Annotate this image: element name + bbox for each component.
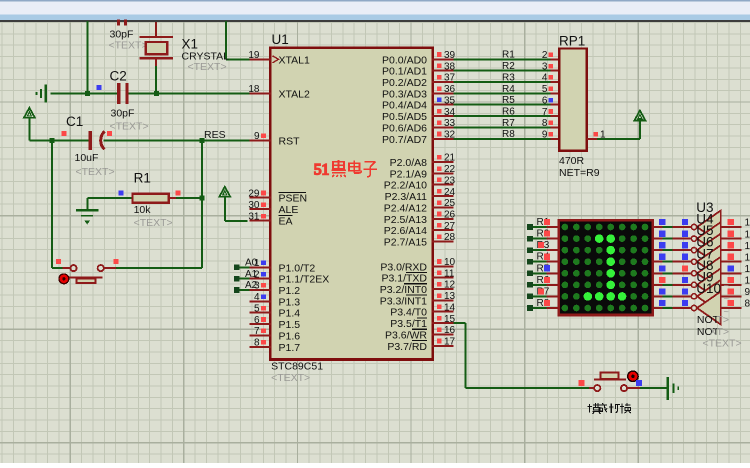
state square matrix R5 <box>544 265 550 271</box>
svg-text:16: 16 <box>444 325 456 336</box>
wire RES row <box>29 139 251 141</box>
svg-text:6: 6 <box>254 315 260 326</box>
wire matrix row 6 to U8 <box>653 282 697 287</box>
wire matrix row 5 to U7 <box>653 271 697 276</box>
pin 32 (P0.7/AD7) right <box>382 130 456 146</box>
wire net R4 <box>454 84 559 95</box>
pin 17 (P3.7/RD) right <box>387 337 455 353</box>
pin 30 (ALE) left <box>248 200 298 216</box>
pin 25 (P2.4/A12) right <box>384 198 456 214</box>
svg-text:A1: A1 <box>245 269 258 280</box>
label U10 TEXT fragment <box>710 326 730 338</box>
label RP1 NET=R9 <box>559 167 600 179</box>
label C1 10uF <box>75 152 99 164</box>
svg-text:P3.1/TXD: P3.1/TXD <box>381 273 427 285</box>
svg-text:24: 24 <box>444 187 456 198</box>
svg-text:4: 4 <box>542 73 548 84</box>
svg-text:28: 28 <box>444 232 456 243</box>
wire matrix row 4 to U6 <box>653 259 697 264</box>
state squares row 5 <box>659 265 688 271</box>
svg-text:<TEXT>: <TEXT> <box>110 121 149 133</box>
label U3 <box>696 200 713 215</box>
RP1 pin 3 <box>542 61 553 72</box>
svg-text:10uF: 10uF <box>75 152 99 164</box>
svg-text:30: 30 <box>248 200 260 211</box>
svg-text:P3.0/RXD: P3.0/RXD <box>380 261 427 273</box>
wire XTAL1 node vertical <box>226 21 252 59</box>
label X1 TEXT <box>188 61 227 73</box>
svg-text:27: 27 <box>444 221 456 232</box>
matrix row wire R8 (left) <box>527 298 558 311</box>
wire XTAL2 node horizontal <box>51 92 252 94</box>
svg-text:P3.6/WR: P3.6/WR <box>385 330 427 342</box>
matrix row wire R6 (left) <box>527 275 558 288</box>
svg-text:11: 11 <box>444 268 455 279</box>
svg-text:P2.4/A12: P2.4/A12 <box>384 202 427 214</box>
svg-text:9: 9 <box>542 130 548 141</box>
wire RES node down to button right / R1 <box>201 140 203 268</box>
state squares C1 <box>62 131 112 136</box>
label RP1 <box>559 34 585 49</box>
svg-text:P2.5/A13: P2.5/A13 <box>384 214 427 226</box>
label C2 30pF <box>111 108 135 120</box>
pin 11 (P3.1/TXD) right <box>381 268 454 284</box>
inverter U9 <box>697 280 721 313</box>
pin 38 (P0.1/AD1) right <box>382 61 456 77</box>
state squares row 6 <box>659 277 688 283</box>
RP1 pin 6 <box>542 95 553 106</box>
pin 5 (P1.4) left <box>250 303 301 319</box>
svg-text:R1: R1 <box>134 171 151 186</box>
power arrow (RP1 pin1) <box>634 111 645 125</box>
svg-text:2: 2 <box>542 50 548 61</box>
svg-text:<TEXT>: <TEXT> <box>109 40 148 52</box>
ground (below R1) <box>76 210 98 224</box>
ground (near C2) <box>37 84 46 102</box>
svg-text:13: 13 <box>745 241 750 252</box>
inverter U3 <box>697 211 721 244</box>
svg-text:R8: R8 <box>502 129 515 140</box>
RP1 pin 4 <box>542 73 553 84</box>
label U9 TEXT fragment <box>717 314 730 326</box>
svg-text:31: 31 <box>248 211 260 222</box>
svg-text:RES: RES <box>204 129 226 141</box>
svg-text:13: 13 <box>444 291 456 302</box>
svg-text:P0.0/AD0: P0.0/AD0 <box>382 54 427 66</box>
state square matrix R4 <box>544 254 550 260</box>
inverter U6 <box>697 245 721 278</box>
grey TEXT fragments right column <box>724 281 729 317</box>
inverter U7 output wire <box>721 264 750 275</box>
label U4 <box>696 212 714 227</box>
power arrow (EA) <box>219 187 230 221</box>
svg-text:C1: C1 <box>66 114 83 129</box>
svg-text:P1.4: P1.4 <box>279 308 301 320</box>
wire matrix row 3 to U5 <box>653 248 697 253</box>
pin 15 (P3.5/T1) right <box>390 314 455 330</box>
pin 27 (P2.6/A14) right <box>384 221 456 237</box>
label STC89C51 <box>271 361 323 373</box>
mode button actuator icon <box>628 371 638 381</box>
svg-text:PSEN: PSEN <box>279 193 308 205</box>
state squares row 3 <box>659 242 688 248</box>
inverter U10 <box>697 292 721 325</box>
pin 37 (P0.2/AD2) right <box>382 73 456 89</box>
pin 35 (P0.4/AD4) right <box>382 95 456 111</box>
svg-text:21: 21 <box>444 153 456 164</box>
resistor pack RP1 <box>559 49 587 151</box>
push button (reset) <box>63 265 117 283</box>
svg-text:RP1: RP1 <box>559 34 585 49</box>
svg-text:5: 5 <box>542 84 548 95</box>
label moshiqiehuan (mode switch CJK) <box>588 403 632 414</box>
svg-text:30pF: 30pF <box>111 108 135 120</box>
capacitor C1 (10uF electrolytic) <box>88 131 104 150</box>
svg-text:12: 12 <box>444 280 456 291</box>
inverter U6 output wire <box>721 252 750 263</box>
svg-text:X1: X1 <box>182 37 199 52</box>
junction crystal/XTAL2 <box>154 91 159 96</box>
wire button-left vertical <box>52 140 63 268</box>
state square matrix R8 <box>544 300 550 306</box>
svg-text:STC89C51: STC89C51 <box>271 361 323 373</box>
svg-text:R2: R2 <box>502 61 515 72</box>
pin 31 (EA) left <box>248 211 292 227</box>
svg-text:EA: EA <box>279 216 293 228</box>
svg-text:8: 8 <box>745 299 750 310</box>
pin 6 (P1.5) left <box>250 315 301 331</box>
svg-text:P2.7/A15: P2.7/A15 <box>384 237 427 249</box>
inverter U8 <box>697 268 721 301</box>
svg-text:P2.1/A9: P2.1/A9 <box>390 168 428 180</box>
RP1 pin 9 <box>542 130 553 141</box>
pin 26 (P2.5/A13) right <box>384 210 456 226</box>
wire net R6 <box>454 107 559 118</box>
power arrow (RES node) <box>24 108 35 141</box>
svg-text:51: 51 <box>314 162 330 179</box>
net label A2 wire <box>234 280 258 293</box>
pin 34 (P0.5/AD5) right <box>382 107 456 123</box>
pin 18 (XTAL2) left <box>248 84 310 100</box>
label U8 <box>696 258 713 273</box>
junction RES/R1 <box>200 138 205 143</box>
svg-text:P1.7: P1.7 <box>279 342 301 354</box>
svg-text:~: ~ <box>724 307 729 317</box>
svg-text:18: 18 <box>248 84 260 95</box>
label RP1 470R <box>559 155 585 167</box>
svg-text:7: 7 <box>254 326 260 337</box>
wire net R1 <box>454 50 559 61</box>
svg-text:XTAL2: XTAL2 <box>279 88 310 100</box>
svg-text:P0.6/AD6: P0.6/AD6 <box>382 123 427 135</box>
inverter U4 <box>697 222 721 255</box>
state square matrix R2 <box>544 231 550 237</box>
svg-text:4: 4 <box>254 292 260 303</box>
state square matrix R1 <box>544 219 550 225</box>
svg-text:XT>: XT> <box>710 326 730 338</box>
resistor R1 <box>133 194 203 203</box>
pin 10 (P3.0/RXD) right <box>380 257 455 273</box>
inverter U7 <box>697 257 721 290</box>
wire button right to R1 node <box>116 267 202 269</box>
capacitor C3 (30pF, top, partially hidden) <box>109 20 148 52</box>
label U6 <box>696 235 713 250</box>
svg-text:19: 19 <box>248 50 260 61</box>
svg-text:<TEXT>: <TEXT> <box>76 166 115 178</box>
wire net R7 <box>454 118 559 129</box>
junction R1/vertical <box>200 196 205 201</box>
ground (mode switch) <box>668 377 679 400</box>
wire mode button to ground <box>640 387 667 389</box>
crystal X1 <box>140 22 174 93</box>
svg-text:26: 26 <box>444 210 456 221</box>
inverter U10 output wire <box>721 299 750 310</box>
state squares row 4 <box>659 254 688 260</box>
label R1 <box>134 171 151 186</box>
svg-text:ALE: ALE <box>279 204 299 216</box>
state squares reset button <box>56 259 118 264</box>
pin 28 (P2.7/A15) right <box>384 232 456 248</box>
RP1 pin 7 <box>542 107 553 118</box>
label C1 TEXT <box>76 166 115 178</box>
svg-text:R7: R7 <box>502 118 515 129</box>
pin 8 (P1.7) left <box>250 338 301 354</box>
junction RES/button-left <box>49 138 54 143</box>
wire matrix row 2 to U4 <box>653 236 697 241</box>
svg-text:P2.3/A11: P2.3/A11 <box>385 191 428 203</box>
state squares row 7 <box>659 288 688 294</box>
svg-text:<TEXT>: <TEXT> <box>703 338 742 350</box>
svg-text:R6: R6 <box>502 107 515 118</box>
state square matrix R7 <box>538 288 544 294</box>
svg-text:P2.6/A14: P2.6/A14 <box>384 225 427 237</box>
label U1 TEXT <box>271 372 310 384</box>
capacitor C2 <box>117 83 129 104</box>
label R1 10k <box>134 204 152 216</box>
svg-text:P2.2/A10: P2.2/A10 <box>384 180 427 192</box>
svg-text:~: ~ <box>724 294 729 304</box>
IC U1 body (STC89C51) <box>270 48 432 360</box>
pin 12 (P3.2/INT0) right <box>380 280 456 296</box>
RP1 pin 8 <box>542 118 553 129</box>
LED matrix DM1 body <box>557 219 654 316</box>
wire R1 left + down to ground <box>87 198 132 209</box>
svg-text:14: 14 <box>745 229 750 240</box>
svg-text:RST: RST <box>279 135 301 147</box>
matrix row wire R5 (left) <box>527 263 558 276</box>
matrix row wire R4 (left) <box>527 252 558 265</box>
svg-text:P0.5/AD5: P0.5/AD5 <box>382 111 427 123</box>
inverter U5 output wire <box>721 241 750 252</box>
svg-text:P1.2: P1.2 <box>279 285 301 297</box>
svg-text:10: 10 <box>745 276 750 287</box>
pin 19 (XTAL1) left <box>248 50 310 66</box>
svg-text:R5: R5 <box>502 95 515 106</box>
svg-text:U10: U10 <box>696 281 721 296</box>
svg-text:R1: R1 <box>502 50 515 61</box>
svg-text:8: 8 <box>542 118 548 129</box>
svg-text:P0.7/AD7: P0.7/AD7 <box>382 134 427 146</box>
label U7 <box>696 246 713 261</box>
pin 2 (P1.1/T2EX) left <box>250 269 330 285</box>
inverter U8 output wire <box>721 276 750 287</box>
wire matrix row 1 to U3 <box>653 224 697 229</box>
label gates TEXT <box>703 338 742 350</box>
svg-text:P3.4/T0: P3.4/T0 <box>390 307 427 319</box>
wire C3 to ground node vertical <box>87 21 89 93</box>
pin 3 (P1.2) left <box>250 281 301 297</box>
svg-text:~: ~ <box>724 281 729 291</box>
wire net R5 <box>454 95 559 106</box>
svg-text:NET=R9: NET=R9 <box>559 167 600 179</box>
svg-text:P1.6: P1.6 <box>279 331 301 343</box>
svg-text:11: 11 <box>745 264 750 275</box>
svg-text:12: 12 <box>745 252 750 263</box>
push button (mode) <box>589 372 640 391</box>
svg-text:25: 25 <box>444 198 456 209</box>
svg-text:P0.2/AD2: P0.2/AD2 <box>382 77 427 89</box>
svg-text:A2: A2 <box>245 280 258 291</box>
svg-text:P1.3: P1.3 <box>279 296 301 308</box>
svg-text:P3.3/INT1: P3.3/INT1 <box>380 295 427 307</box>
wire matrix row 7 to U9 <box>653 294 697 299</box>
pin 14 (P3.4/T0) right <box>390 302 455 318</box>
wire EA <box>225 220 248 222</box>
wire net R8 <box>454 129 559 140</box>
svg-text:9: 9 <box>745 287 750 298</box>
pin 22 (P2.1/A9) right <box>390 164 456 180</box>
state squares mode button <box>579 380 642 386</box>
svg-text:P2.0/A8: P2.0/A8 <box>390 157 428 169</box>
net label A0 wire <box>234 258 258 271</box>
pin 4 (P1.3) left <box>250 292 301 308</box>
LED matrix dots <box>562 224 649 312</box>
wire net R3 <box>454 72 559 83</box>
state square matrix R6 <box>544 277 550 283</box>
svg-text:P3.7/RD: P3.7/RD <box>387 341 427 353</box>
matrix row wire R3 (left) <box>527 240 558 253</box>
label NOT (U9) <box>697 314 720 326</box>
svg-text:P3.5/T1: P3.5/T1 <box>390 318 427 330</box>
svg-text:10: 10 <box>444 257 456 268</box>
label C1 <box>66 114 83 129</box>
svg-text:U1: U1 <box>272 32 289 47</box>
pin 23 (P2.2/A10) right <box>384 175 456 191</box>
pin 16 (P3.6/WR) right <box>385 325 456 341</box>
matrix row wire R2 (left) <box>527 229 558 242</box>
svg-text:17: 17 <box>444 337 456 348</box>
state squares row 8 <box>659 300 688 306</box>
pin 9 (RST) left <box>250 131 301 147</box>
label U10 <box>696 281 721 296</box>
label U1 <box>272 32 289 47</box>
button actuator icon <box>59 274 69 284</box>
label X1 <box>182 37 199 52</box>
svg-text:P3.2/INT0: P3.2/INT0 <box>380 284 427 296</box>
svg-text:A0: A0 <box>245 258 258 269</box>
svg-text:R3: R3 <box>502 72 515 83</box>
inverter U9 output wire <box>721 287 750 298</box>
svg-text:23: 23 <box>444 175 456 186</box>
label NOT (U10) <box>697 326 720 338</box>
wire P3.5 to mode button <box>454 323 589 388</box>
inverter U4 output wire <box>721 229 750 240</box>
pin 29 (PSEN) left <box>248 188 307 204</box>
pin 7 (P1.6) left <box>250 326 301 342</box>
state square matrix R3 <box>538 242 544 248</box>
svg-text:XTAL1: XTAL1 <box>279 54 310 66</box>
matrix row wire R1 (left) <box>527 217 558 230</box>
pin 39 (P0.0/AD0) right <box>382 50 456 66</box>
svg-text:14: 14 <box>444 302 456 313</box>
junction C2/ground node <box>85 91 90 96</box>
svg-text:P1.1/T2EX: P1.1/T2EX <box>279 274 330 286</box>
svg-text:C2: C2 <box>110 69 127 84</box>
svg-text:3: 3 <box>542 61 548 72</box>
RP1 pin 1 + wire to power <box>587 121 640 141</box>
label U5 <box>696 223 713 238</box>
svg-text:P0.4/AD4: P0.4/AD4 <box>382 100 427 112</box>
pin 36 (P0.3/AD3) right <box>382 84 456 100</box>
RP1 pin 2 <box>542 50 553 61</box>
svg-text:470R: 470R <box>559 155 585 167</box>
inverter U5 <box>697 234 721 267</box>
svg-text:7: 7 <box>542 107 548 118</box>
matrix row wire R7 (left) <box>527 286 558 299</box>
svg-text:8: 8 <box>254 338 260 349</box>
svg-text:P1.5: P1.5 <box>279 319 301 331</box>
svg-text:R4: R4 <box>502 84 515 95</box>
pin 1 (P1.0/T2) left <box>250 258 316 274</box>
state squares row 1 <box>659 219 688 225</box>
svg-text:29: 29 <box>248 188 260 199</box>
svg-text:P0.3/AD3: P0.3/AD3 <box>382 88 427 100</box>
pin 24 (P2.3/A11) right <box>385 187 456 203</box>
label CRYSTAL <box>182 50 230 62</box>
svg-text:22: 22 <box>444 164 456 175</box>
svg-text:6: 6 <box>542 95 548 106</box>
pin 13 (P3.3/INT1) right <box>380 291 456 307</box>
svg-text:<TEXT>: <TEXT> <box>271 372 310 384</box>
label R1 TEXT <box>134 217 173 229</box>
svg-text:<TEXT>: <TEXT> <box>134 217 173 229</box>
net label RES <box>204 129 226 141</box>
label U9 <box>696 269 713 284</box>
svg-text:P1.0/T2: P1.0/T2 <box>279 262 316 274</box>
net label A1 wire <box>234 269 258 282</box>
toolbar strip <box>0 0 750 22</box>
pin 33 (P0.6/AD6) right <box>382 118 456 134</box>
pin XTAL1 clock chevron <box>273 56 279 63</box>
svg-text:P0.1/AD1: P0.1/AD1 <box>382 66 427 78</box>
state squares R1 <box>119 190 181 195</box>
inverter U3 output wire <box>721 218 750 229</box>
RP1 pin 5 <box>542 84 553 95</box>
svg-text:<TEXT>: <TEXT> <box>188 61 227 73</box>
svg-text:15: 15 <box>745 218 750 229</box>
wire matrix row 8 to U10 <box>653 305 697 310</box>
label 51heidianzi (red CJK) <box>314 160 377 179</box>
state squares row 2 <box>659 231 688 237</box>
svg-text:9: 9 <box>254 131 260 142</box>
label C2 <box>110 69 127 84</box>
svg-text:5: 5 <box>254 303 260 314</box>
wire net R2 <box>454 61 559 72</box>
pin 21 (P2.0/A8) right <box>390 153 456 169</box>
state square C2 <box>97 85 102 90</box>
label C2 TEXT <box>110 121 149 133</box>
svg-text:10k: 10k <box>134 204 152 216</box>
